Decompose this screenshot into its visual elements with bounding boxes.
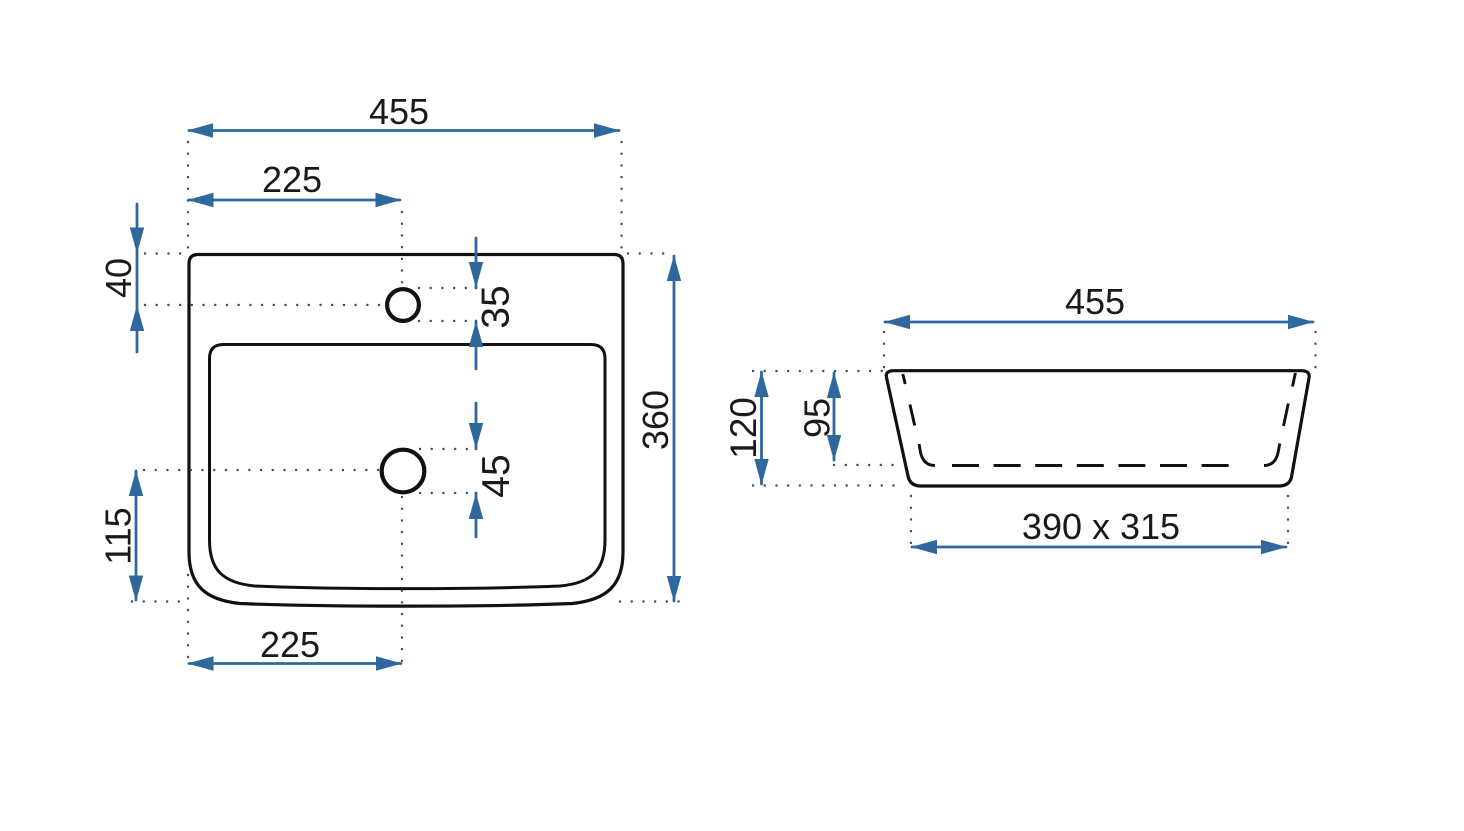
extension line: bottom edge to 115 dim	[132, 600, 186, 602]
dimension 120	[760, 372, 763, 484]
extension line: 455 top left	[187, 142, 189, 250]
extension line: drain bottom to 45 dim	[420, 492, 470, 494]
extension line: 455 right-view right	[1314, 332, 1316, 368]
extension line: bottom-left to 225 bottom	[187, 575, 189, 661]
extension line: faucet top to 35 dim	[419, 287, 469, 289]
dimension 40 left	[136, 204, 139, 352]
svg-text:390 x 315: 390 x 315	[1022, 506, 1180, 547]
extension line: drain centre to 115 dim	[144, 469, 380, 471]
basin side profile	[886, 371, 1309, 486]
drain hole	[382, 450, 425, 493]
svg-text:225: 225	[262, 159, 322, 200]
extension line: bottom edge to 360 dim	[620, 600, 684, 602]
svg-text:225: 225	[260, 624, 320, 665]
extension line: faucet centre to 40 dim	[145, 304, 385, 306]
extension line: faucet bottom to 35 dim	[419, 320, 469, 322]
extension line: inner bottom to 95 dim	[834, 464, 898, 466]
extension line: bottom-left to 390 dim	[910, 496, 912, 545]
svg-text:455: 455	[1065, 281, 1125, 322]
svg-text:455: 455	[369, 91, 429, 132]
svg-text:360: 360	[635, 390, 676, 450]
dimension 35 faucet	[475, 238, 478, 288]
faucet hole	[387, 289, 419, 321]
inner bowl dashed profile	[903, 373, 1296, 466]
basin outer outline	[189, 255, 623, 607]
dimension 455 right view	[885, 321, 1313, 324]
svg-text:40: 40	[98, 258, 139, 298]
extension line: bottom-right to 390 dim	[1287, 496, 1289, 545]
extension line: 225 top to faucet	[401, 212, 403, 285]
svg-text:120: 120	[723, 397, 764, 459]
dimension 95	[833, 373, 836, 460]
svg-text:95: 95	[797, 398, 838, 438]
extension line: 455 right-view left	[883, 332, 885, 370]
svg-text:115: 115	[98, 507, 139, 564]
svg-text:35: 35	[475, 285, 518, 328]
extension line: 455 top right	[620, 142, 622, 250]
dimension 45 drain	[475, 403, 478, 449]
dimension 390 x 315	[912, 546, 1286, 549]
dimension 225 bottom	[189, 662, 401, 665]
dimension 115 left	[135, 471, 138, 600]
extension line: bottom to 120 dim	[753, 484, 905, 486]
dimension 360 right	[673, 256, 676, 601]
svg-text:45: 45	[475, 454, 518, 497]
dimension 225 top	[189, 199, 400, 202]
extension line: top to 120 dim	[753, 370, 882, 372]
extension line: drain top to 45 dim	[420, 448, 470, 450]
extension line: drain to 225 bottom	[401, 497, 403, 661]
extension line: top edge to 40 dim	[145, 252, 186, 254]
basin inner bowl outline	[210, 345, 606, 589]
extension line: top edge to 360 dim	[628, 252, 672, 254]
dimension 455 top	[189, 129, 619, 132]
